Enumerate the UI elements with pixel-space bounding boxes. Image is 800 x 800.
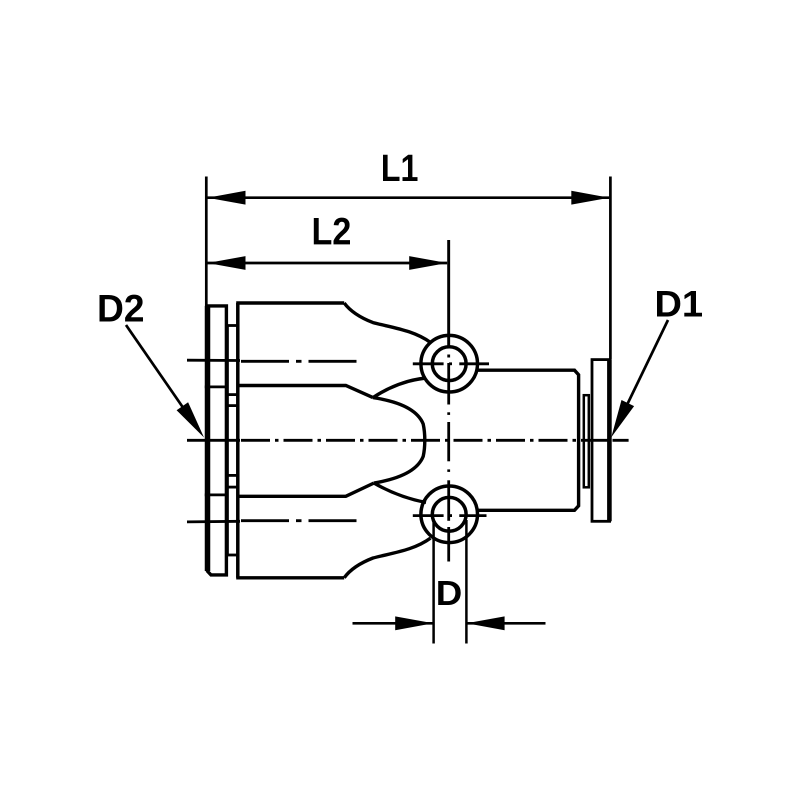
body bottom edge [236,576,344,579]
D2 leader line [126,325,193,422]
top port inner circle [432,347,466,381]
top port outer circle [421,335,478,392]
lower notch line [237,483,375,496]
main axis centerline dash-dot [241,439,610,442]
label D1 [657,291,702,317]
upper arm lower curve [373,378,426,398]
dimension L2 line [208,262,448,265]
L1 left extension line [205,177,208,307]
body top edge [236,301,344,304]
L1 right extension line [609,177,612,360]
top port centerline left tick [187,359,240,362]
D dimension line left [353,622,434,625]
bottom port centerline dash-dot [241,519,358,522]
dimension L2 right arrowhead [409,256,447,270]
vertical port axis centerline [447,240,450,562]
D2 leader arrowhead [177,402,204,437]
left release plate (outer) [205,306,228,575]
bottom port crosshair horizontal [413,514,487,517]
lower arm upper curve [374,483,426,503]
bottom port inner circle [432,497,466,531]
main axis centerline left tick [187,439,240,442]
bottom port centerline left tick [187,520,240,523]
collet strip division lines [227,393,238,396]
D right arrowhead [467,616,505,630]
label D2 [100,295,144,322]
D dimension line right [466,622,545,625]
D1 leader arrowhead [611,400,634,437]
left plate division lines [205,385,228,388]
D left extension line [432,520,435,644]
dimension L1 left arrowhead [208,191,246,205]
dimension L1 line [208,196,610,199]
D left arrowhead [395,616,433,630]
neck ring [584,395,589,487]
bottom port outer circle [421,486,478,543]
centre nose outline [373,398,425,483]
top port crosshair horizontal [413,362,489,365]
left collet ring (inner strip) [227,326,238,556]
dimension L1 right arrowhead [571,191,609,205]
main axis centerline right tick [613,439,629,442]
top port centerline dash-dot [241,360,358,363]
D1 leader line [619,320,668,422]
L2 right extension line [447,240,450,346]
lower branch arm bottom curve [344,538,430,578]
upper notch line [237,386,374,398]
D right extension line [465,520,468,644]
right cylinder outline [477,370,578,510]
dimension D label [438,581,461,605]
dimension L2 label [314,218,350,245]
dimension L1 label [383,155,418,181]
body left edge [236,303,240,578]
end plate [592,360,610,522]
upper branch arm top curve [344,303,430,343]
dimension L2 left arrowhead [208,256,246,270]
end plate right edge (thick) [607,360,612,522]
